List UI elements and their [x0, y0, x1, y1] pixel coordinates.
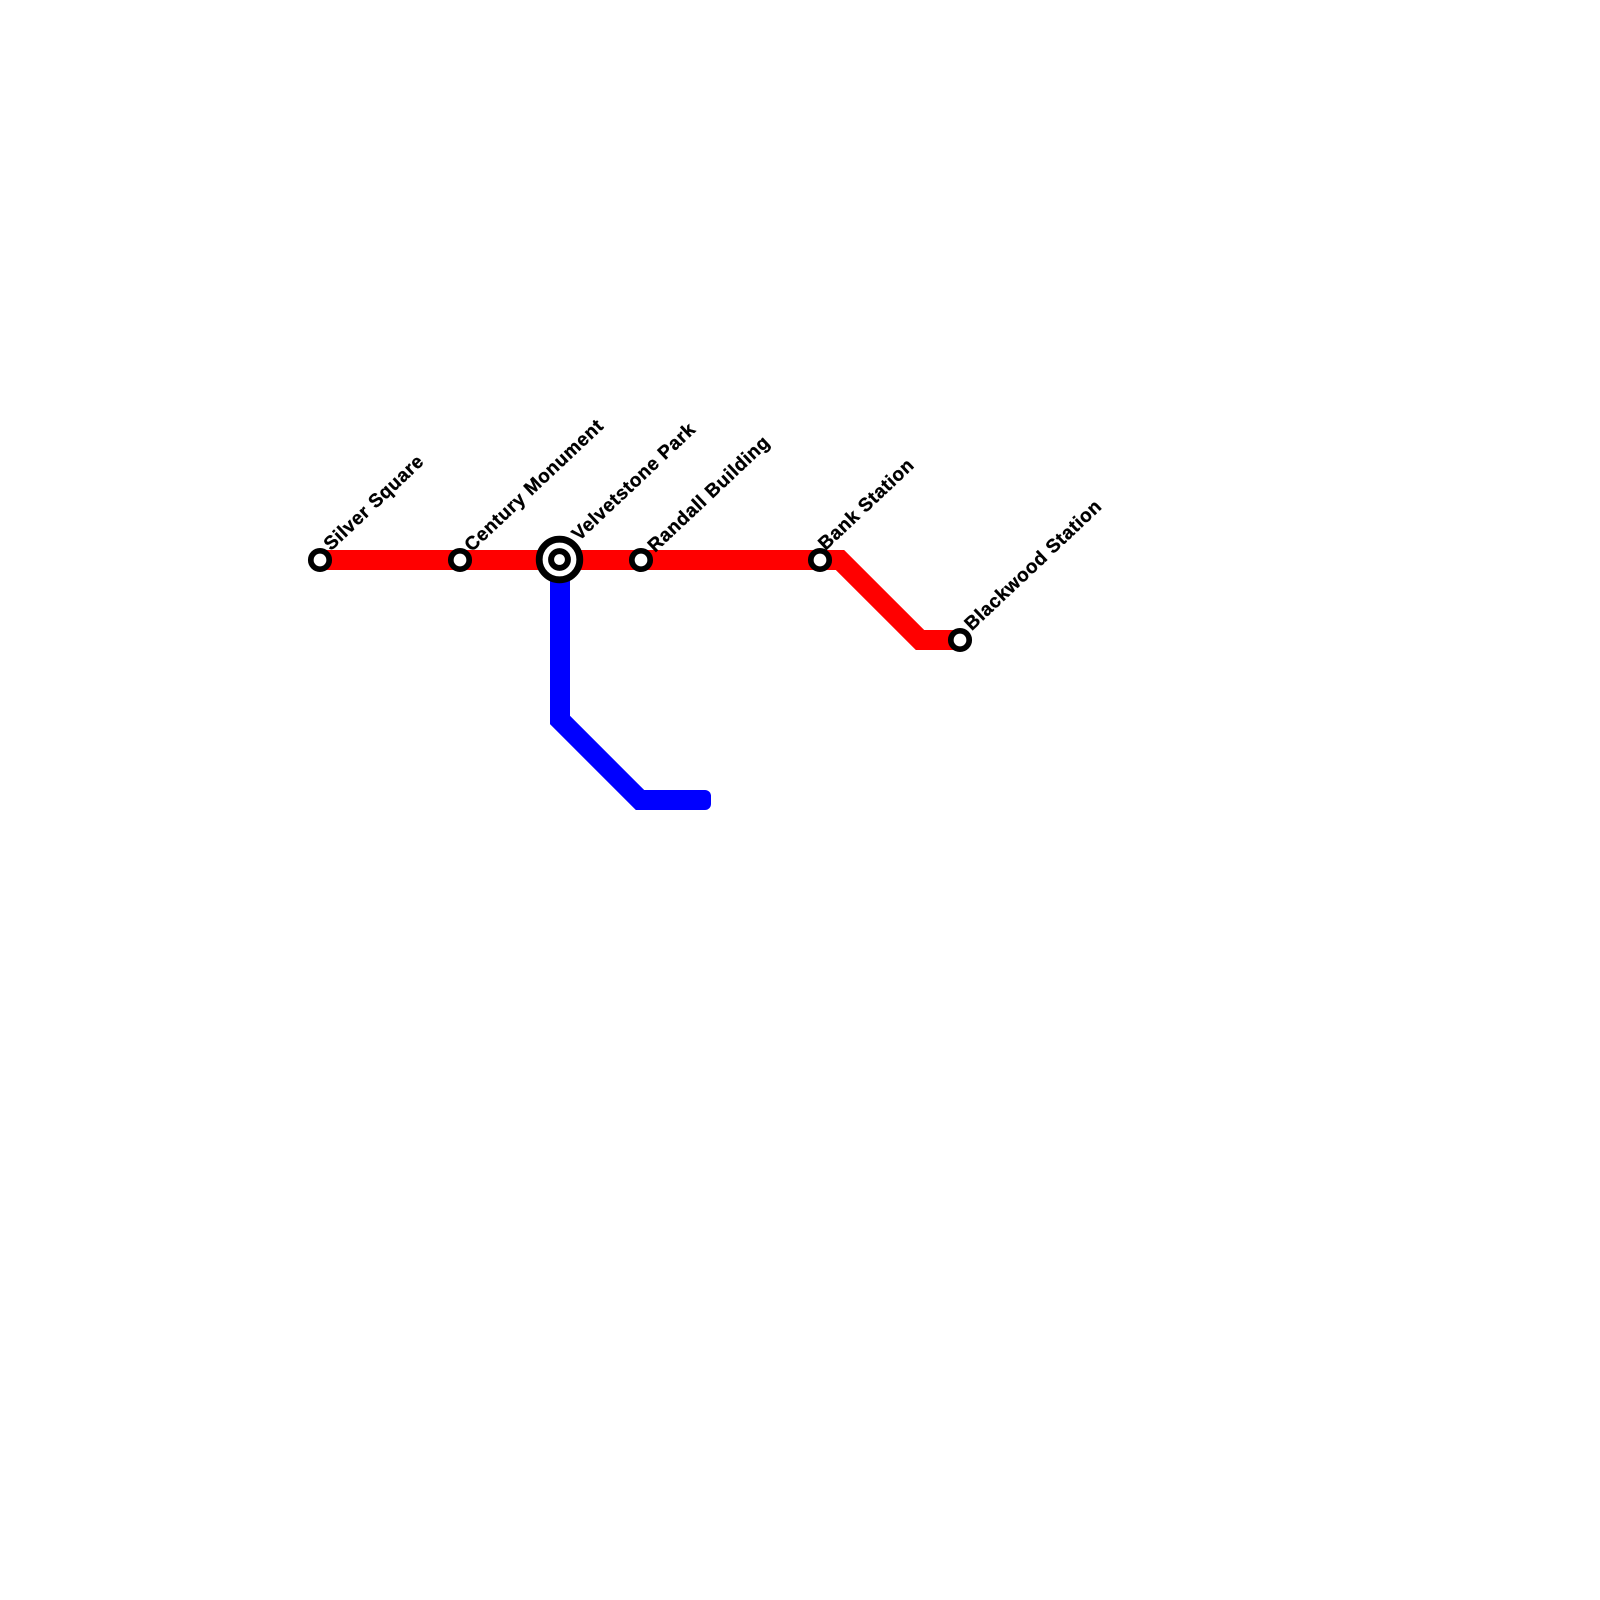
station Bank Station — [811, 551, 829, 569]
svg-text:Blackwood Station: Blackwood Station — [961, 496, 1107, 635]
blue line rounded end cap — [693, 790, 711, 810]
station Randall Building — [632, 551, 650, 569]
station Century Monument — [451, 551, 469, 569]
svg-text:Silver Square: Silver Square — [320, 451, 428, 555]
interchange station Velvetstone Park outer ring — [539, 539, 580, 580]
red metro line — [320, 560, 960, 640]
station Blackwood Station — [951, 631, 969, 649]
blue metro line — [560, 560, 701, 800]
interchange station Velvetstone Park inner ring — [551, 551, 568, 568]
station Silver Square — [311, 551, 329, 569]
svg-text:Bank Station: Bank Station — [815, 455, 919, 555]
